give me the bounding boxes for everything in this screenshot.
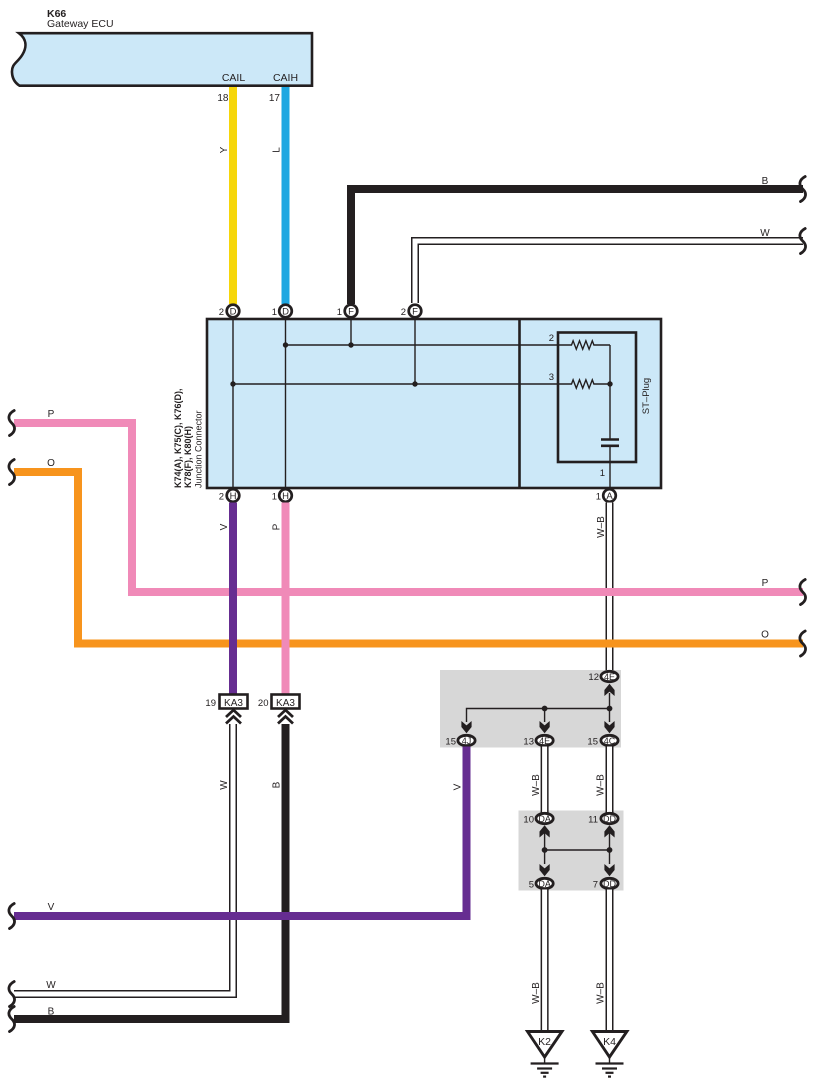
svg-text:V: V bbox=[48, 902, 55, 913]
junction connector box K74/K75/K76/K78/K80 bbox=[207, 319, 661, 488]
wire W-B from 7(DD) to ground K4 bbox=[606, 890, 614, 1032]
wire Y (CAIL) bbox=[229, 87, 237, 304]
junction dot bbox=[607, 706, 613, 712]
junction dot bbox=[283, 342, 288, 347]
svg-text:W–B: W–B bbox=[531, 982, 542, 1004]
svg-text:CAIH: CAIH bbox=[273, 72, 298, 84]
svg-text:W: W bbox=[219, 780, 230, 790]
pin 1A bbox=[603, 489, 616, 502]
svg-text:19: 19 bbox=[205, 698, 216, 709]
wire P from pin 1H to KA3 bbox=[282, 503, 290, 696]
chevrons below KA3 20 bbox=[278, 710, 293, 724]
svg-text:P: P bbox=[48, 409, 55, 420]
svg-text:P: P bbox=[272, 523, 283, 530]
svg-text:W–B: W–B bbox=[531, 774, 542, 796]
junction connector divider bbox=[518, 319, 521, 488]
svg-text:18: 18 bbox=[217, 93, 229, 104]
pin 2F bbox=[409, 305, 422, 318]
svg-text:1: 1 bbox=[600, 468, 605, 479]
pin 1D bbox=[279, 305, 292, 318]
svg-text:1: 1 bbox=[337, 307, 342, 318]
arrow into 15(4J) bbox=[461, 721, 471, 733]
svg-text:P: P bbox=[762, 578, 769, 589]
svg-text:4J: 4J bbox=[462, 736, 472, 746]
svg-text:F: F bbox=[412, 307, 418, 318]
torn end of wire V bbox=[9, 904, 15, 929]
torn end of wire B bbox=[800, 177, 806, 202]
svg-text:KA3: KA3 bbox=[224, 698, 243, 709]
wire W from KA3 19 to bottom left bbox=[14, 724, 233, 994]
svg-text:K2: K2 bbox=[538, 1036, 551, 1048]
wire resistor to capacitor bbox=[609, 345, 611, 440]
wire L (CAIH) bbox=[282, 87, 290, 304]
svg-text:DD: DD bbox=[603, 879, 616, 889]
svg-text:K78(F), K80(H): K78(F), K80(H) bbox=[183, 426, 193, 488]
svg-text:W: W bbox=[46, 980, 56, 991]
svg-text:Y: Y bbox=[219, 146, 230, 153]
svg-text:L: L bbox=[272, 147, 283, 153]
svg-text:W–B: W–B bbox=[596, 982, 607, 1004]
junction dot bbox=[542, 847, 548, 853]
svg-text:17: 17 bbox=[269, 93, 281, 104]
wire B from KA3 20 to bottom left bbox=[14, 724, 286, 1019]
svg-text:4C: 4C bbox=[604, 736, 616, 746]
svg-text:V: V bbox=[219, 523, 230, 530]
internal wire from 2F bbox=[414, 320, 416, 384]
svg-text:5: 5 bbox=[529, 880, 534, 891]
svg-text:ST–Plug: ST–Plug bbox=[641, 378, 652, 414]
torn end of wire O left bbox=[9, 460, 15, 485]
internal bus wire CAN-H (upper) with resistor R2 bbox=[286, 341, 611, 349]
connector 15(4C) bbox=[601, 735, 618, 745]
svg-text:B: B bbox=[48, 1007, 55, 1018]
svg-text:1: 1 bbox=[596, 492, 601, 503]
svg-text:CAIL: CAIL bbox=[222, 72, 246, 84]
wire P (long) bbox=[14, 423, 803, 592]
svg-text:Gateway ECU: Gateway ECU bbox=[47, 18, 114, 30]
gray connector block 2 bbox=[519, 811, 624, 891]
pin 2H bbox=[227, 489, 240, 502]
connector 20 KA3 bbox=[272, 695, 300, 709]
svg-text:20: 20 bbox=[258, 698, 269, 709]
junction dot bbox=[230, 381, 235, 386]
connector 12(4E) bbox=[601, 671, 618, 681]
svg-text:B: B bbox=[762, 176, 769, 187]
svg-text:DA: DA bbox=[538, 879, 551, 889]
internal link wires in block 1 bbox=[609, 693, 611, 709]
svg-text:DD: DD bbox=[603, 814, 616, 824]
svg-text:DA: DA bbox=[538, 814, 551, 824]
wire V from pin 2H to KA3 bbox=[229, 503, 237, 696]
svg-text:7: 7 bbox=[593, 880, 598, 891]
torn end of wire O right bbox=[800, 631, 806, 656]
wire W-B from 15(4C) to 11(DD) bbox=[606, 747, 614, 814]
capacitor C1 bbox=[601, 438, 619, 441]
svg-text:V: V bbox=[453, 783, 464, 790]
svg-text:K74(A), K75(C), K76(D),: K74(A), K75(C), K76(D), bbox=[173, 388, 183, 488]
arrow into 5(DA) bbox=[540, 864, 550, 876]
torn end of wire B bbox=[9, 1007, 15, 1032]
svg-text:H: H bbox=[282, 491, 289, 502]
svg-text:3: 3 bbox=[549, 372, 554, 383]
junction dot bbox=[412, 381, 417, 386]
torn end of wire W bbox=[9, 982, 15, 1007]
connector 5(DA) bbox=[536, 878, 553, 888]
svg-text:W–B: W–B bbox=[596, 774, 607, 796]
svg-text:W–B: W–B bbox=[596, 516, 607, 538]
svg-text:15: 15 bbox=[445, 737, 456, 748]
Gateway ECU connector box K66 bbox=[12, 33, 312, 85]
internal wire from 1F bbox=[350, 320, 352, 345]
torn end of wire P right bbox=[800, 580, 806, 605]
svg-text:2: 2 bbox=[401, 307, 406, 318]
connector 19 KA3 bbox=[220, 695, 248, 709]
wire W (top, to pin 2F) bbox=[415, 241, 803, 303]
junction dot bbox=[542, 706, 548, 712]
svg-text:D: D bbox=[230, 307, 237, 318]
arrow from 11(DD) bbox=[604, 825, 614, 837]
arrow into 15(4C) bbox=[604, 721, 614, 733]
junction dot bbox=[607, 847, 613, 853]
torn end of wire P left bbox=[9, 411, 15, 436]
svg-text:12: 12 bbox=[588, 672, 599, 683]
svg-text:W: W bbox=[760, 228, 770, 239]
pin 1H bbox=[279, 489, 292, 502]
svg-text:O: O bbox=[47, 458, 55, 469]
svg-text:D: D bbox=[282, 307, 289, 318]
torn end of wire W bbox=[800, 229, 806, 254]
svg-text:1: 1 bbox=[272, 492, 277, 503]
connector 11(DD) bbox=[601, 813, 618, 823]
svg-text:10: 10 bbox=[523, 815, 534, 826]
wire W-B from 13(4E) to 10(DA) bbox=[541, 747, 549, 814]
svg-text:KA3: KA3 bbox=[276, 698, 295, 709]
wire B (top, to pin 1F) bbox=[351, 189, 803, 304]
svg-text:11: 11 bbox=[588, 815, 598, 826]
wire O (long) bbox=[14, 472, 803, 644]
junction connector name label bbox=[173, 388, 204, 488]
wire W-B from pin 1A to 12(4E) bbox=[606, 503, 614, 671]
internal wire from 2D to 2H bbox=[232, 320, 234, 487]
svg-text:O: O bbox=[761, 630, 769, 641]
connector 10(DA) bbox=[536, 813, 553, 823]
svg-text:13: 13 bbox=[523, 737, 534, 748]
internal link wires in block 2 bbox=[544, 833, 546, 850]
junction dot bbox=[607, 381, 612, 386]
svg-text:15: 15 bbox=[587, 737, 598, 748]
connector 15(4J) bbox=[458, 735, 475, 745]
svg-text:H: H bbox=[230, 491, 237, 502]
junction dot bbox=[348, 342, 353, 347]
svg-text:K4: K4 bbox=[603, 1036, 616, 1048]
svg-text:F: F bbox=[348, 307, 354, 318]
ST-Plug inner box bbox=[558, 333, 636, 463]
internal wire from 1D to 1H bbox=[285, 320, 287, 487]
K66 label bbox=[47, 8, 114, 30]
pin 2D bbox=[227, 305, 240, 318]
svg-text:A: A bbox=[606, 491, 613, 502]
wire W-B from 5(DA) to ground K2 bbox=[541, 890, 549, 1032]
svg-text:1: 1 bbox=[272, 307, 277, 318]
svg-text:2: 2 bbox=[549, 333, 554, 344]
internal bus wire CAN-L (lower) with resistor R3 bbox=[233, 380, 610, 388]
svg-text:Junction Connector: Junction Connector bbox=[194, 410, 204, 488]
svg-text:2: 2 bbox=[219, 492, 224, 503]
wire V from 15(4J) to bottom left bbox=[14, 747, 467, 917]
svg-text:4E: 4E bbox=[539, 736, 550, 746]
svg-text:4E: 4E bbox=[604, 672, 615, 682]
connector 13(4E) bbox=[536, 735, 553, 745]
ground K4 bbox=[592, 1032, 627, 1077]
ground K2 bbox=[528, 1032, 563, 1077]
svg-text:B: B bbox=[272, 781, 283, 788]
wire capacitor to pin 1A bbox=[609, 446, 611, 488]
connector 7(DD) bbox=[601, 878, 618, 888]
chevrons below KA3 19 bbox=[226, 710, 241, 724]
arrow into 7(DD) bbox=[604, 864, 614, 876]
pin 1F bbox=[345, 305, 358, 318]
gray connector block 1 bbox=[440, 670, 621, 748]
svg-text:2: 2 bbox=[219, 307, 224, 318]
arrow into 13(4E) bbox=[540, 721, 550, 733]
arrow into 12(4E) bbox=[604, 684, 614, 696]
arrow from 10(DA) bbox=[540, 825, 550, 837]
